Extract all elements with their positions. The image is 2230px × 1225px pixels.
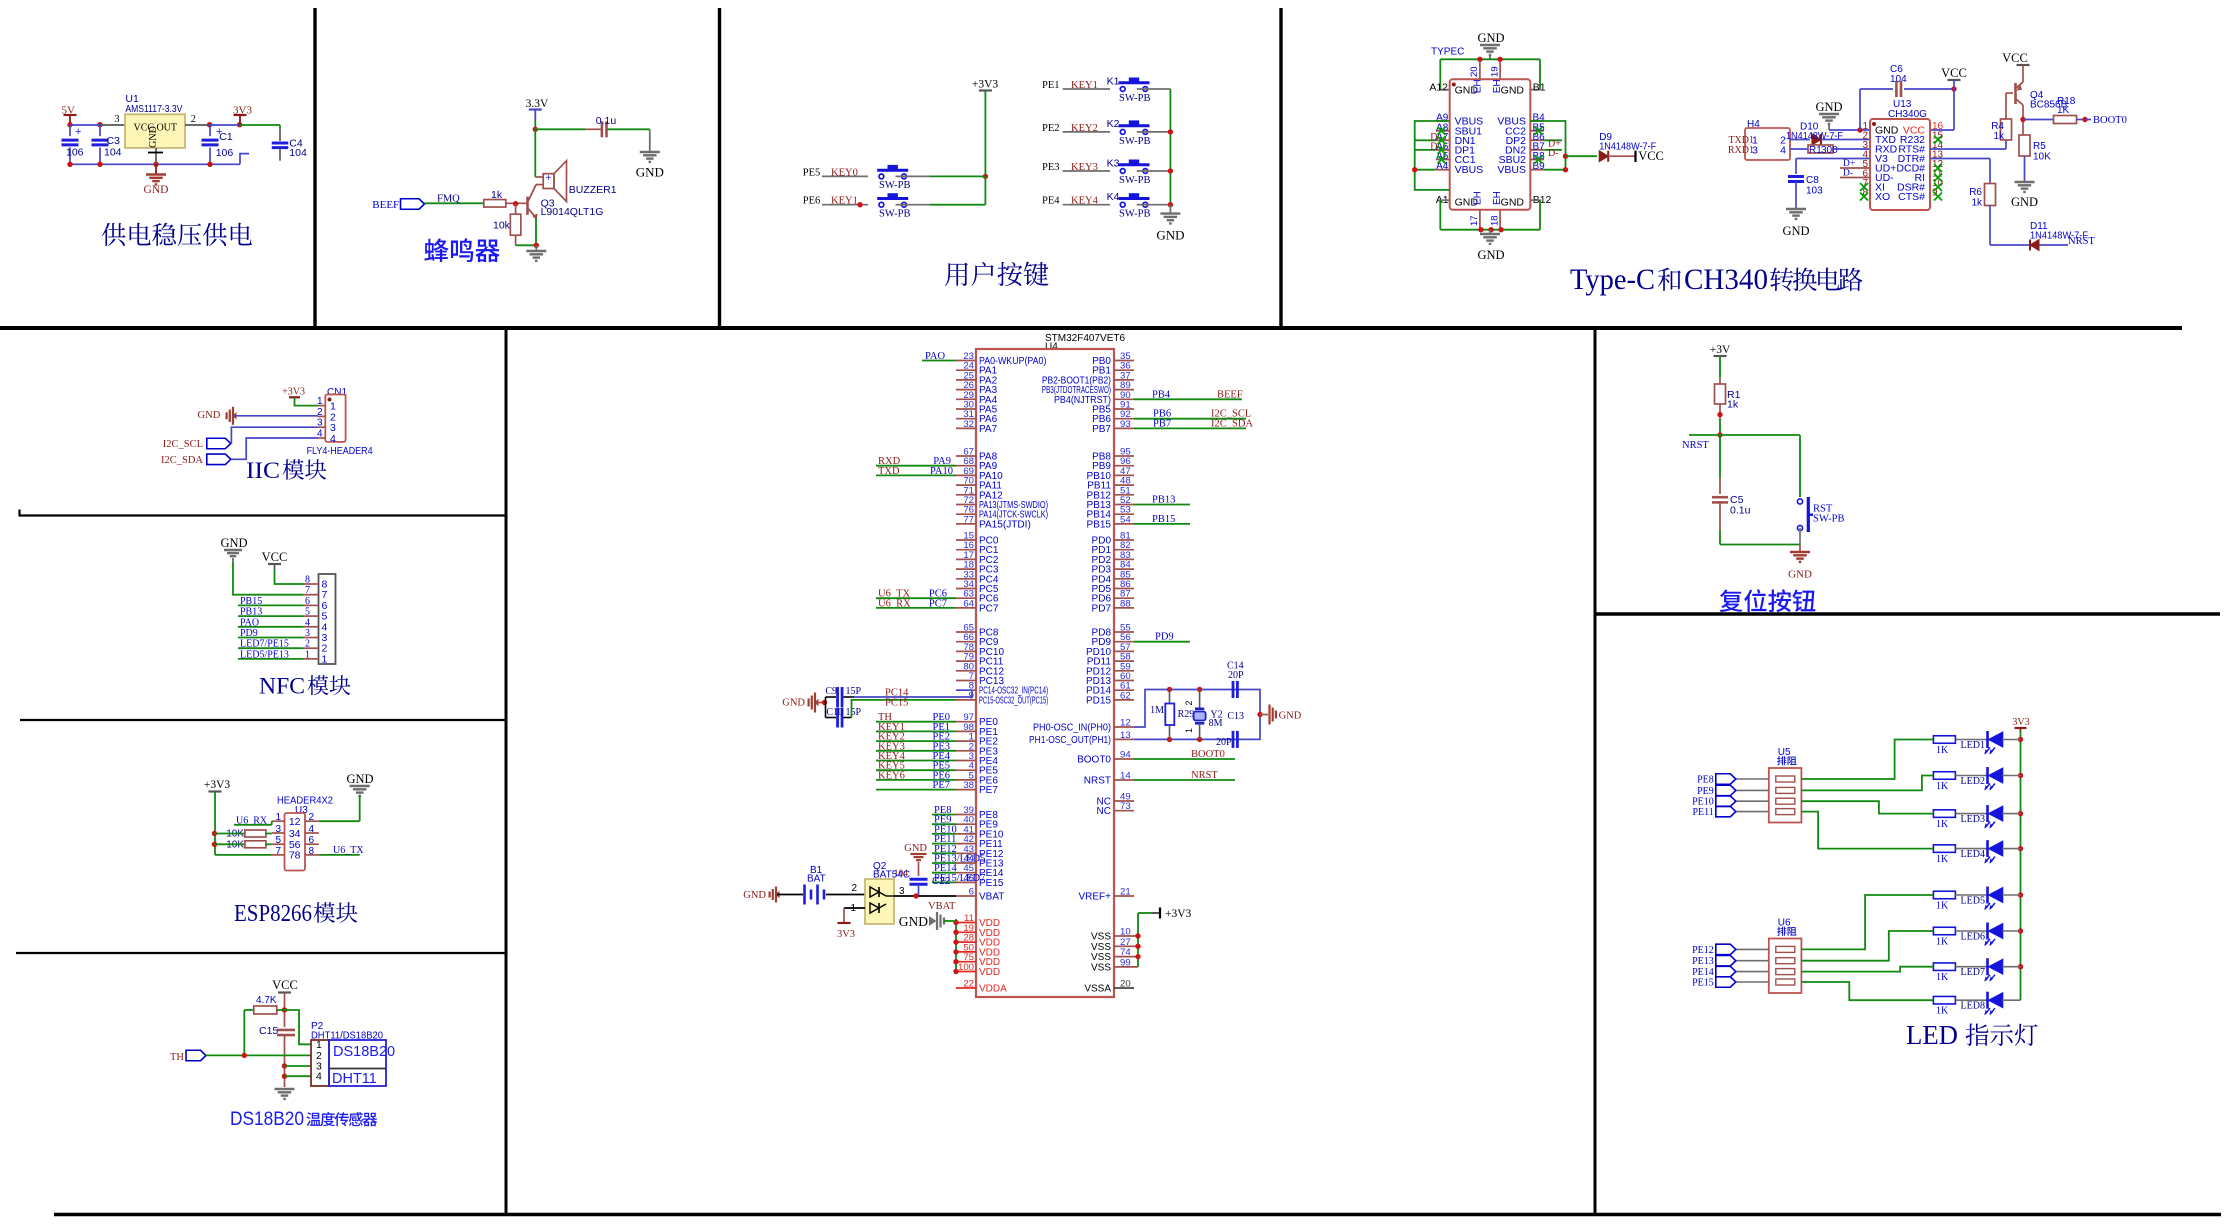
svg-text:PE2: PE2 xyxy=(1042,123,1060,134)
svg-text:C15: C15 xyxy=(259,1025,278,1037)
svg-text:SW-PB: SW-PB xyxy=(1119,209,1151,220)
svg-text:3: 3 xyxy=(115,114,120,125)
svg-text:D-: D- xyxy=(1843,169,1853,179)
svg-text:1M: 1M xyxy=(1150,705,1164,716)
svg-text:6: 6 xyxy=(969,887,974,898)
svg-text:2: 2 xyxy=(851,883,857,894)
svg-text:104: 104 xyxy=(104,147,122,159)
svg-text:C1: C1 xyxy=(219,131,233,143)
svg-text:VBUS: VBUS xyxy=(1497,164,1526,176)
svg-text:1K: 1K xyxy=(1936,901,1949,912)
svg-text:5: 5 xyxy=(305,607,310,618)
svg-text:PB7: PB7 xyxy=(1092,424,1111,435)
svg-text:PE15: PE15 xyxy=(1692,978,1714,989)
svg-text:Type-C: Type-C xyxy=(1570,263,1655,296)
svg-text:8M: 8M xyxy=(1209,718,1223,729)
svg-text:1: 1 xyxy=(317,396,323,407)
svg-text:7: 7 xyxy=(275,846,281,857)
svg-text:+3V3: +3V3 xyxy=(972,79,999,91)
svg-text:7: 7 xyxy=(305,585,310,596)
svg-text:ESP8266: ESP8266 xyxy=(234,901,312,927)
svg-text:PC7: PC7 xyxy=(979,603,999,614)
svg-text:54: 54 xyxy=(1120,514,1131,525)
svg-text:PE3: PE3 xyxy=(1042,162,1060,173)
svg-text:PE6: PE6 xyxy=(803,196,821,207)
svg-text:R29: R29 xyxy=(1178,709,1195,720)
svg-text:CTS#: CTS# xyxy=(1898,191,1925,203)
svg-text:4: 4 xyxy=(330,433,336,445)
svg-text:10K: 10K xyxy=(2033,152,2051,163)
svg-text:NRST: NRST xyxy=(1191,770,1218,781)
svg-text:C3: C3 xyxy=(107,135,121,147)
svg-text:PA7: PA7 xyxy=(979,424,998,435)
svg-text:LED4: LED4 xyxy=(1961,849,1985,860)
svg-text:103: 103 xyxy=(1806,186,1823,197)
svg-text:1K: 1K xyxy=(1936,972,1949,983)
svg-text:BEEF: BEEF xyxy=(372,199,399,211)
svg-text:20P: 20P xyxy=(1216,737,1232,748)
svg-text:PB15: PB15 xyxy=(1087,519,1112,530)
svg-text:99: 99 xyxy=(1120,957,1131,968)
svg-text:+3V3: +3V3 xyxy=(282,387,305,398)
svg-text:LED2: LED2 xyxy=(1961,776,1985,787)
svg-text:PD9: PD9 xyxy=(1155,632,1174,643)
svg-text:GND: GND xyxy=(220,536,247,550)
svg-text:+: + xyxy=(546,173,552,184)
svg-text:PE11: PE11 xyxy=(1692,807,1713,818)
svg-text:AMS1117-3.3V: AMS1117-3.3V xyxy=(125,103,182,115)
svg-text:SW-PB: SW-PB xyxy=(1119,93,1151,104)
svg-text:3: 3 xyxy=(305,628,310,639)
svg-text:VDD: VDD xyxy=(979,967,1000,978)
svg-text:PB7: PB7 xyxy=(1153,418,1171,429)
svg-text:D+: D+ xyxy=(1843,159,1855,169)
svg-text:VBAT: VBAT xyxy=(928,901,956,912)
svg-text:62: 62 xyxy=(1120,690,1131,701)
svg-text:VSSA: VSSA xyxy=(1084,984,1111,995)
svg-text:PE4: PE4 xyxy=(1042,196,1060,207)
svg-text:U3: U3 xyxy=(295,805,308,816)
svg-text:FMQ: FMQ xyxy=(437,194,460,205)
svg-text:2: 2 xyxy=(305,639,310,650)
svg-text:NRST: NRST xyxy=(2068,236,2095,247)
svg-text:SW-PB: SW-PB xyxy=(1813,514,1845,525)
svg-text:TH: TH xyxy=(170,1052,184,1063)
svg-text:20: 20 xyxy=(1120,979,1131,990)
svg-text:C10: C10 xyxy=(826,707,843,718)
svg-text:1: 1 xyxy=(322,653,328,665)
svg-text:DS18B20: DS18B20 xyxy=(333,1044,395,1060)
svg-text:78: 78 xyxy=(289,850,301,862)
svg-text:BAT54C: BAT54C xyxy=(873,870,910,881)
svg-text:20P: 20P xyxy=(1228,670,1244,681)
svg-text:GND: GND xyxy=(1788,569,1812,581)
svg-text:U6_TX: U6_TX xyxy=(333,845,364,856)
svg-text:18: 18 xyxy=(1490,215,1501,226)
svg-text:300: 300 xyxy=(1821,145,1838,156)
svg-text:0.1u: 0.1u xyxy=(596,115,617,127)
svg-text:1K: 1K xyxy=(1936,854,1949,865)
svg-text:PE5: PE5 xyxy=(803,167,821,178)
svg-text:1k: 1k xyxy=(1971,198,1983,209)
svg-text:3: 3 xyxy=(317,418,323,429)
svg-text:PB4: PB4 xyxy=(1152,389,1171,400)
svg-text:2: 2 xyxy=(309,812,315,823)
svg-text:VSS: VSS xyxy=(1091,962,1111,973)
svg-text:C22: C22 xyxy=(932,876,951,887)
svg-text:8: 8 xyxy=(309,846,315,857)
svg-text:GND: GND xyxy=(1501,196,1525,208)
svg-text:1K: 1K xyxy=(1936,819,1949,830)
svg-text:100: 100 xyxy=(958,962,974,973)
svg-text:SW-PB: SW-PB xyxy=(1119,175,1151,186)
svg-text:1K: 1K xyxy=(1936,745,1949,756)
svg-text:PC15: PC15 xyxy=(885,697,908,708)
svg-text:KEY0: KEY0 xyxy=(831,167,858,178)
svg-text:LED: LED xyxy=(1906,1020,1958,1050)
svg-text:VBAT: VBAT xyxy=(979,892,1004,903)
svg-text:LED8: LED8 xyxy=(1961,1001,1985,1012)
svg-text:NC: NC xyxy=(1097,806,1111,817)
svg-text:GND: GND xyxy=(899,914,928,929)
svg-text:+3V3: +3V3 xyxy=(1165,908,1192,920)
svg-text:K3: K3 xyxy=(1107,157,1120,169)
svg-text:PE10: PE10 xyxy=(1692,797,1714,808)
svg-text:GND: GND xyxy=(1815,100,1842,114)
svg-text:34: 34 xyxy=(289,828,301,840)
svg-text:106: 106 xyxy=(66,147,84,159)
svg-text:17: 17 xyxy=(1469,215,1480,226)
svg-text:3V3: 3V3 xyxy=(837,929,855,940)
svg-text:K2: K2 xyxy=(1107,118,1120,130)
svg-text:C9: C9 xyxy=(825,686,837,697)
svg-text:GND: GND xyxy=(904,843,927,854)
svg-text:VCC: VCC xyxy=(262,550,288,564)
svg-text:BOOT0: BOOT0 xyxy=(2093,115,2127,126)
svg-text:RXD1: RXD1 xyxy=(1728,145,1754,156)
svg-text:OUT: OUT xyxy=(156,123,177,134)
svg-text:4: 4 xyxy=(305,617,310,628)
svg-text:DS18B20: DS18B20 xyxy=(230,1108,304,1130)
svg-text:PE8: PE8 xyxy=(1697,775,1714,786)
svg-text:BUZZER1: BUZZER1 xyxy=(569,184,617,196)
svg-text:BOOT0: BOOT0 xyxy=(1077,755,1111,766)
svg-text:I2C_SCL: I2C_SCL xyxy=(163,439,203,450)
svg-text:1K: 1K xyxy=(2057,105,2070,116)
svg-text:FLY4-HEADER4: FLY4-HEADER4 xyxy=(307,446,373,457)
svg-text:73: 73 xyxy=(1120,801,1131,812)
svg-text:64: 64 xyxy=(963,598,974,609)
svg-text:TYPEC: TYPEC xyxy=(1431,47,1464,58)
svg-text:XO: XO xyxy=(1875,191,1890,203)
svg-text:1: 1 xyxy=(305,649,310,660)
svg-text:88: 88 xyxy=(1120,598,1131,609)
svg-text:NFC: NFC xyxy=(259,674,305,699)
svg-text:+3V3: +3V3 xyxy=(204,779,231,791)
svg-text:GND: GND xyxy=(2011,195,2038,209)
svg-text:EH: EH xyxy=(1473,79,1484,93)
svg-text:CH340G: CH340G xyxy=(1888,109,1927,120)
svg-text:CN1: CN1 xyxy=(327,387,347,398)
svg-text:SW-PB: SW-PB xyxy=(879,180,911,191)
svg-text:12: 12 xyxy=(1120,718,1131,729)
svg-text:1: 1 xyxy=(275,812,281,823)
svg-text:PB15: PB15 xyxy=(1152,514,1175,525)
svg-text:A12: A12 xyxy=(1429,82,1448,94)
svg-text:K4: K4 xyxy=(1107,191,1120,203)
svg-text:LED5: LED5 xyxy=(1961,896,1985,907)
svg-text:GND: GND xyxy=(1782,224,1809,238)
svg-text:20: 20 xyxy=(1469,66,1480,77)
svg-text:SW-PB: SW-PB xyxy=(879,208,911,219)
svg-text:PD7: PD7 xyxy=(1092,603,1112,614)
svg-text:GND: GND xyxy=(1156,228,1184,243)
svg-text:PH1-OSC_OUT(PH1): PH1-OSC_OUT(PH1) xyxy=(1029,735,1111,746)
svg-text:1k: 1k xyxy=(1993,131,2005,142)
svg-text:5: 5 xyxy=(275,835,281,846)
svg-text:PE7: PE7 xyxy=(979,785,998,796)
svg-text:GND: GND xyxy=(782,698,805,709)
svg-text:+3V: +3V xyxy=(1710,344,1731,356)
svg-text:15P: 15P xyxy=(846,707,862,718)
svg-text:1N4148W-7-F: 1N4148W-7-F xyxy=(1599,142,1656,153)
svg-text:106: 106 xyxy=(216,147,234,159)
svg-text:PD15: PD15 xyxy=(1086,695,1111,706)
svg-text:R5: R5 xyxy=(2033,141,2046,152)
svg-text:C13: C13 xyxy=(1227,711,1244,722)
svg-text:2: 2 xyxy=(317,407,323,418)
svg-text:VCC: VCC xyxy=(272,978,298,992)
svg-text:+: + xyxy=(75,126,81,138)
svg-text:93: 93 xyxy=(1120,419,1131,430)
svg-text:GND: GND xyxy=(144,184,169,196)
svg-text:12: 12 xyxy=(289,816,301,828)
svg-text:1N4148W-7-F: 1N4148W-7-F xyxy=(1786,131,1843,142)
svg-text:GND: GND xyxy=(1501,85,1525,97)
svg-text:EH: EH xyxy=(1473,191,1484,205)
svg-text:4.7K: 4.7K xyxy=(256,995,277,1006)
svg-text:3.3V: 3.3V xyxy=(526,98,549,110)
svg-text:19: 19 xyxy=(1490,66,1501,77)
svg-text:104: 104 xyxy=(1890,74,1907,85)
svg-text:PE13: PE13 xyxy=(1692,956,1714,967)
svg-text:PB13: PB13 xyxy=(1152,495,1175,506)
svg-text:C8: C8 xyxy=(1806,175,1819,186)
svg-text:6: 6 xyxy=(305,596,310,607)
svg-text:I2C_SDA: I2C_SDA xyxy=(161,455,203,466)
svg-text:VBUS: VBUS xyxy=(1455,164,1484,176)
svg-text:1: 1 xyxy=(1184,728,1194,733)
svg-text:VREF+: VREF+ xyxy=(1078,892,1111,903)
svg-text:4: 4 xyxy=(316,1071,322,1083)
svg-text:D: D xyxy=(1430,141,1437,152)
svg-text:38: 38 xyxy=(963,780,974,791)
svg-text:4: 4 xyxy=(309,824,315,835)
svg-text:21: 21 xyxy=(1120,887,1131,898)
svg-text:PC15-OSC32_OUT(PC15): PC15-OSC32_OUT(PC15) xyxy=(979,695,1048,706)
svg-text:PE14: PE14 xyxy=(1692,967,1714,978)
svg-text:GND: GND xyxy=(636,165,664,180)
svg-text:GND: GND xyxy=(1477,248,1504,262)
svg-text:CH340: CH340 xyxy=(1684,263,1768,296)
svg-text:GND: GND xyxy=(1279,711,1302,722)
svg-text:PE1: PE1 xyxy=(1042,80,1060,91)
svg-text:LED3: LED3 xyxy=(1961,814,1985,825)
svg-text:77: 77 xyxy=(963,514,974,525)
svg-text:1K: 1K xyxy=(1936,1006,1949,1017)
svg-text:1k: 1k xyxy=(1727,399,1739,411)
svg-text:6: 6 xyxy=(309,835,315,846)
svg-text:U4: U4 xyxy=(1045,342,1058,353)
svg-text:VDDA: VDDA xyxy=(979,984,1007,995)
svg-text:NRST: NRST xyxy=(1084,776,1111,787)
svg-text:BOOT0: BOOT0 xyxy=(1191,749,1225,760)
svg-text:K1: K1 xyxy=(1107,75,1120,87)
svg-text:LED1: LED1 xyxy=(1961,740,1985,751)
svg-text:15P: 15P xyxy=(846,686,862,697)
svg-text:4: 4 xyxy=(317,429,323,440)
svg-text:13: 13 xyxy=(1120,730,1131,741)
svg-text:D-: D- xyxy=(1548,148,1559,159)
svg-text:VCC: VCC xyxy=(2002,51,2028,65)
svg-text:PE9: PE9 xyxy=(1697,786,1714,797)
svg-text:4: 4 xyxy=(1780,145,1786,157)
svg-text:DHT11: DHT11 xyxy=(332,1071,377,1087)
svg-text:B1: B1 xyxy=(1533,82,1546,94)
svg-text:GND: GND xyxy=(743,890,766,901)
svg-text:IIC: IIC xyxy=(246,458,280,483)
svg-text:VCC: VCC xyxy=(1941,66,1967,80)
svg-text:2: 2 xyxy=(1184,700,1194,705)
svg-text:PE12: PE12 xyxy=(1692,945,1714,956)
svg-text:8: 8 xyxy=(305,575,310,586)
svg-text:104: 104 xyxy=(289,147,307,159)
svg-text:22: 22 xyxy=(963,979,974,990)
svg-text:GND: GND xyxy=(198,410,221,421)
svg-text:PH0-OSC_IN(PH0): PH0-OSC_IN(PH0) xyxy=(1033,723,1111,734)
svg-text:R6: R6 xyxy=(1969,187,1982,198)
svg-text:GND: GND xyxy=(346,772,373,786)
svg-text:2: 2 xyxy=(191,114,196,125)
svg-text:1: 1 xyxy=(850,903,856,914)
svg-text:10k: 10k xyxy=(493,220,511,232)
svg-text:LED6: LED6 xyxy=(1961,932,1985,943)
svg-text:KEY1: KEY1 xyxy=(831,196,858,207)
svg-text:I2C_SDA: I2C_SDA xyxy=(1211,418,1253,429)
svg-text:BAT: BAT xyxy=(807,874,826,885)
svg-text:SW-PB: SW-PB xyxy=(1119,136,1151,147)
svg-text:0.1u: 0.1u xyxy=(1730,505,1751,517)
svg-text:94: 94 xyxy=(1120,750,1131,761)
svg-text:1K: 1K xyxy=(1936,781,1949,792)
svg-text:GND: GND xyxy=(1477,31,1504,45)
svg-text:LED7: LED7 xyxy=(1961,967,1985,978)
svg-text:14: 14 xyxy=(1120,771,1131,782)
svg-text:1K: 1K xyxy=(1936,937,1949,948)
svg-text:3: 3 xyxy=(275,824,281,835)
svg-text:3V3: 3V3 xyxy=(2012,717,2029,728)
svg-text:NRST: NRST xyxy=(1682,440,1709,451)
svg-text:PA15(JTDI): PA15(JTDI) xyxy=(979,519,1031,530)
svg-text:L9014QLT1G: L9014QLT1G xyxy=(541,206,604,218)
svg-text:BEEF: BEEF xyxy=(1217,389,1243,400)
svg-text:32: 32 xyxy=(963,419,974,430)
